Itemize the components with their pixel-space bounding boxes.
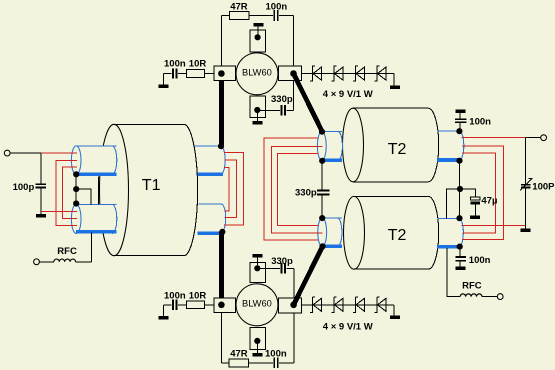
node T2 top-right top: [456, 128, 462, 134]
wire: [256, 341, 258, 353]
svg-text:47R: 47R: [230, 348, 248, 359]
capacitor 330p top: [280, 105, 286, 115]
svg-text:T1: T1: [142, 177, 161, 194]
node Q1 emitter top: [255, 34, 261, 40]
wire: [162, 305, 164, 316]
wire collector to T2 (thick diagonal) bottom: [294, 246, 323, 304]
ground: [390, 86, 400, 90]
node T2 top-right bottom: [456, 158, 462, 164]
node Q2 emitter top: [254, 265, 260, 271]
wire: [393, 305, 395, 316]
svg-text:100n: 100n: [469, 255, 491, 266]
capacitor 100n input bottom: [172, 300, 178, 310]
ground: [253, 254, 263, 258]
node Q2 emitter bottom: [254, 338, 260, 344]
diode D7 zener: [353, 297, 365, 313]
feedback wire top: [221, 14, 293, 16]
winding T2 right loops (red): [461, 138, 525, 240]
ground: [253, 353, 263, 357]
node 47u junction: [457, 186, 463, 192]
T1 tube bottom-right: [198, 204, 226, 233]
diode D4 zener: [374, 66, 386, 82]
ground: [253, 121, 263, 125]
wire: [256, 110, 258, 121]
transistor Q1 BLW60: [236, 53, 278, 95]
wire collector to zeners: [302, 73, 395, 75]
capacitor 47u electrolytic: [460, 189, 480, 219]
wire collector to T2 (thick diagonal): [294, 74, 323, 132]
svg-text:10R: 10R: [189, 59, 207, 70]
wire 47u branch: [447, 189, 460, 218]
wire collector to zeners bottom: [302, 304, 395, 306]
node T2 bottom-left bottom: [319, 243, 325, 249]
node T2 bottom-right bottom: [457, 244, 463, 250]
node T1 secondary center: [73, 186, 79, 192]
resistor 47R top: [230, 11, 249, 19]
T1 tube top-right: [195, 146, 226, 174]
svg-text:100n: 100n: [164, 291, 186, 302]
wire T2 right inter-tube: [459, 161, 461, 218]
T1 center-tap wiring: [76, 174, 98, 204]
resistor 47R bottom: [229, 359, 248, 367]
diode D2 zener: [331, 66, 343, 82]
capacitor 100P trimmer: [520, 138, 532, 229]
diode D3 zener: [353, 66, 365, 82]
svg-text:47µ: 47µ: [481, 196, 497, 207]
diode D6 zener: [331, 297, 343, 313]
svg-text:T2: T2: [388, 227, 407, 244]
diode D5 zener: [310, 297, 322, 313]
node Q2 base: [218, 302, 225, 309]
transformer T2 bottom core: [344, 196, 439, 269]
svg-text:100n: 100n: [164, 59, 186, 70]
node T1 bottom-right: [219, 229, 225, 235]
wire: [163, 304, 214, 306]
svg-text:330p: 330p: [271, 94, 293, 105]
wire: [220, 15, 222, 73]
wire 330p top: [257, 109, 293, 111]
T2 top right tube: [437, 131, 464, 160]
input terminal J1: [4, 150, 10, 156]
T1 tube top-left: [71, 146, 116, 176]
svg-text:BLW60: BLW60: [242, 67, 272, 77]
node T1 top-right: [218, 143, 224, 149]
T2 bottom left tube: [318, 218, 342, 247]
ground: [159, 316, 169, 320]
wire: [393, 74, 395, 86]
svg-text:4 × 9 V/1 W: 4 × 9 V/1 W: [323, 321, 373, 332]
T1 tube bottom-left: [71, 204, 116, 233]
capacitor 330p bottom: [280, 263, 286, 273]
wire: [163, 73, 214, 75]
svg-text:10R: 10R: [189, 291, 207, 302]
wire: [40, 153, 42, 214]
node T2 bottom-right top: [456, 215, 462, 221]
ground: [521, 228, 531, 232]
svg-text:330p: 330p: [295, 187, 317, 198]
wire: [257, 27, 259, 38]
capacitor 100n top-right: [455, 109, 466, 131]
node T2 bottom-left top: [319, 215, 325, 221]
wire output: [525, 137, 540, 139]
svg-text:100n: 100n: [265, 348, 287, 359]
wire base drive top (thick): [219, 74, 224, 147]
transistor Q2 pads: [214, 262, 302, 349]
wire base drive bottom (thick): [219, 232, 224, 305]
svg-text:100n: 100n: [266, 2, 288, 13]
resistor 10R top: [186, 70, 204, 78]
svg-text:T2: T2: [388, 141, 407, 158]
svg-text:47R: 47R: [230, 2, 248, 13]
wire 330p bottom: [257, 267, 294, 269]
RFC choke left: [34, 233, 92, 265]
capacitor 100n bottom-right: [456, 247, 466, 271]
node Q1 base: [218, 70, 225, 77]
RFC choke right: [447, 248, 503, 299]
wire: [10, 152, 41, 154]
svg-text:BLW60: BLW60: [242, 299, 272, 309]
diode D1 zener: [310, 66, 322, 82]
transistor Q1 pads: [214, 30, 302, 118]
winding T1 right (red): [224, 152, 244, 225]
diode D8 zener: [374, 297, 386, 313]
ground: [159, 84, 169, 88]
node T1 secondary b: [73, 200, 79, 206]
transistor Q2 BLW60: [236, 284, 278, 326]
winding T2 left loops (red): [264, 138, 322, 240]
wire: [162, 74, 164, 85]
node T1 secondary a: [73, 171, 79, 177]
wire: [293, 15, 295, 110]
svg-text:330p: 330p: [271, 256, 293, 267]
capacitor 100p: [36, 184, 47, 187]
svg-text:RFC: RFC: [462, 280, 482, 291]
node T2 top-left bottom: [319, 158, 325, 164]
ground: [36, 214, 46, 218]
svg-text:100n: 100n: [469, 116, 491, 127]
svg-text:100P: 100P: [532, 181, 555, 192]
output terminal J2: [541, 135, 547, 141]
feedback wire bottom: [221, 362, 294, 364]
capacitor 330p mid: [317, 161, 329, 219]
wire: [220, 305, 222, 363]
ground: [390, 316, 400, 320]
transformer T1 core: [100, 124, 198, 255]
T2 bottom right tube: [437, 218, 463, 246]
transformer T2 top core: [343, 108, 439, 182]
winding T1 primary left (red): [41, 153, 77, 226]
node T2 top-left top: [319, 129, 325, 135]
ground: [253, 23, 263, 27]
node Q1 collector: [290, 70, 297, 77]
capacitor 100n input top: [172, 68, 178, 78]
T2 top left tube: [317, 131, 342, 160]
wire: [256, 257, 258, 268]
svg-text:100p: 100p: [13, 182, 35, 193]
capacitor 100n feedback bottom: [273, 358, 279, 368]
wire: [293, 268, 295, 363]
node Q1 emitter bottom: [254, 107, 260, 113]
svg-text:RFC: RFC: [57, 246, 77, 257]
capacitor 100n feedback top: [273, 10, 279, 21]
resistor 10R bottom: [186, 301, 204, 309]
node Q2 collector: [290, 302, 297, 309]
svg-text:4 × 9 V/1 W: 4 × 9 V/1 W: [323, 89, 373, 100]
